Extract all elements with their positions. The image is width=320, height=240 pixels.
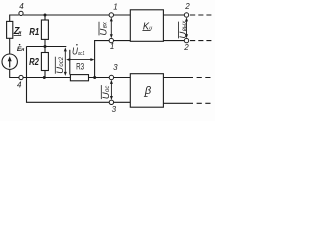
svg-text:вых: вых xyxy=(182,20,188,32)
svg-text:U: U xyxy=(178,32,189,39)
svg-text:R2: R2 xyxy=(29,57,39,68)
svg-text:н: н xyxy=(21,47,24,53)
svg-text:2: 2 xyxy=(184,2,190,11)
svg-text:β: β xyxy=(144,85,152,97)
svg-text:2: 2 xyxy=(183,43,189,52)
svg-text:U: U xyxy=(101,92,112,99)
svg-text:4: 4 xyxy=(17,80,22,89)
svg-text:1: 1 xyxy=(113,3,117,12)
svg-text:3: 3 xyxy=(113,63,118,72)
svg-text:U: U xyxy=(99,29,110,36)
svg-text:R1: R1 xyxy=(29,27,39,38)
svg-text:4: 4 xyxy=(19,2,24,11)
svg-text:вх: вх xyxy=(103,21,109,28)
svg-text:3: 3 xyxy=(112,105,117,114)
svg-text:R3: R3 xyxy=(76,62,84,72)
svg-text:1: 1 xyxy=(110,42,114,51)
svg-text:ос1: ос1 xyxy=(78,51,85,57)
svg-text:ос: ос xyxy=(105,86,111,92)
svg-text:U: U xyxy=(55,67,66,74)
svg-text:ос2: ос2 xyxy=(59,56,65,66)
